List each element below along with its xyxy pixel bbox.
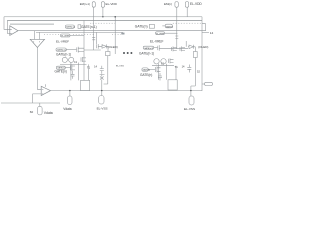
capacitor Cst right [158, 73, 162, 81]
wire dashed rail [44, 33, 121, 35]
terminal pill GATE right G3 [142, 68, 148, 71]
junction dot H1/pill2 [102, 16, 103, 17]
cluster anode left [100, 75, 105, 80]
terminal tag right edge [205, 82, 213, 85]
svg-text:GATE(n): GATE(n) [166, 26, 174, 29]
transistor T8 right [156, 67, 161, 73]
junction dot V1 top [114, 16, 116, 18]
terminal pill GATE right upper [143, 46, 154, 49]
wire mid verticals right [159, 64, 177, 80]
svg-text:GATE(n-1): GATE(n-1) [57, 49, 66, 52]
svg-text:Vdata: Vdata [63, 107, 72, 111]
transistor T7L [81, 57, 86, 62]
wire Vdata output line L5 [51, 90, 203, 92]
svg-text:EM(n): EM(n) [164, 2, 172, 6]
svg-text:GATE(n-1): GATE(n-1) [56, 52, 71, 56]
svg-text:GATE(n): GATE(n) [55, 70, 67, 74]
terminal pill EL-VSS right D [189, 96, 194, 105]
op-amp U1 (left buffer) [10, 26, 18, 36]
rect block right bottom [168, 80, 177, 90]
op-amp U2 (down buffer) [30, 39, 44, 47]
blob H4 end [121, 33, 124, 35]
transistor T7 right [169, 58, 174, 63]
ellipsis dots (more pixels) [123, 52, 125, 54]
wire G3 lead [148, 69, 155, 71]
node circle right B [161, 59, 166, 64]
svg-text:14: 14 [210, 31, 214, 35]
node circle right A [154, 59, 159, 64]
wire Vdata B stem [69, 91, 71, 96]
op-amp U2 input marks [34, 41, 40, 42]
capacitor CstL [71, 71, 75, 79]
wire EM mark left [92, 37, 95, 40]
node circle left A [62, 57, 67, 62]
svg-text:GATE(n): GATE(n) [140, 73, 152, 77]
wire EL-VDD left stem [102, 7, 104, 16]
wire left pixel rail [84, 49, 101, 51]
wire EM mark right [175, 36, 178, 39]
wire GATE right upper lead [154, 47, 158, 49]
svg-text:GATE(n): GATE(n) [135, 25, 148, 29]
wire G2 lead [65, 67, 70, 69]
terminal pill Vdata B [68, 96, 73, 105]
svg-text:T1: T1 [175, 65, 179, 69]
terminal pill EL-VDD left [101, 2, 104, 8]
terminal pill GATE(n) bus tag right [165, 24, 172, 28]
wire amp2 input stub 2 [38, 32, 40, 39]
svg-text:Vdata: Vdata [44, 111, 53, 115]
wire OLED cathode left [101, 80, 103, 96]
transistor T2 (left pixel switch) [77, 47, 84, 53]
wire left feed down from H1 [4, 17, 11, 30]
transistor T8L [70, 65, 75, 71]
wire OLED stack right [194, 47, 196, 52]
svg-text:52: 52 [197, 70, 200, 74]
svg-text:GATE(n-1): GATE(n-1) [66, 26, 75, 29]
svg-text:14: 14 [94, 65, 97, 69]
junction dot right cathode [190, 90, 191, 91]
wire OLED stack left [107, 46, 109, 51]
wire left pixel mid rail [60, 63, 87, 65]
terminal pill EM(n) [175, 2, 178, 8]
wire faint band [10, 23, 54, 25]
wire right edge spur [202, 32, 209, 34]
transistor T5 right [172, 46, 177, 51]
tick GATE(n) tag lead [162, 25, 165, 27]
svg-text:GATE(n): GATE(n) [143, 68, 151, 71]
wire EM(n) stem down into pixel [176, 7, 178, 48]
wire right pixel gate rail [159, 48, 188, 50]
junction dot Vdata B [69, 90, 70, 91]
svg-text:EL-VREF: EL-VREF [61, 36, 70, 38]
wire EL-VREF right lead [165, 32, 178, 34]
terminal pill Vdata A [38, 106, 43, 115]
wire U3 lower input feedback [33, 94, 42, 103]
wire amp2 input stub 1 [34, 31, 36, 40]
rect OLED stack right [193, 52, 197, 58]
wire EL-VSS right stem [190, 91, 192, 96]
svg-text:(OLED): (OLED) [198, 45, 208, 49]
diode OLED left [102, 44, 108, 48]
rect OLED stack left [106, 52, 110, 56]
wire right edge jog H2-H3 [202, 24, 206, 31]
svg-text:60: 60 [30, 110, 34, 114]
wire bus H1 (EL-VDD top rail) [4, 16, 202, 18]
node circle left B [69, 57, 74, 62]
junction dot OLED cathode [101, 90, 102, 91]
svg-text:T1: T1 [87, 65, 91, 69]
op-amp U3 (output buffer) [41, 86, 50, 95]
svg-text:EM(n-1): EM(n-1) [80, 2, 90, 6]
svg-text:EL-VREF: EL-VREF [156, 33, 165, 35]
wire gate drop T4 [96, 32, 98, 44]
wire left mid verticals [71, 63, 88, 81]
wire V_EM_L left pixel vertical [83, 21, 85, 81]
svg-text:(OLED): (OLED) [108, 45, 118, 49]
wire VR corner tag [202, 83, 205, 85]
marker box GATE(n-1) label bracket [78, 25, 81, 29]
wire T6 drop [185, 41, 187, 47]
wire EL-VREF left lead [70, 35, 84, 37]
wire bus H3 (GATE(n-1) rail / amp1 output) [18, 30, 206, 32]
terminal pill EL-VSS C [99, 96, 104, 105]
terminal tag EL-VREF left [61, 34, 71, 37]
svg-text:EL-VREF: EL-VREF [150, 40, 164, 44]
wire EM(n-1) drop [93, 21, 95, 51]
transistor T4 (emission left) [97, 44, 102, 49]
wire V_R right edge drop [201, 17, 203, 91]
terminal pill EL-VDD right [185, 2, 188, 8]
wire G1 lead [66, 49, 76, 51]
terminal pill EM(n-1) [92, 2, 95, 8]
svg-text:EL-VREF: EL-VREF [56, 39, 69, 43]
transistor T2R [158, 45, 159, 51]
terminal pill GATE(n-1) bus tag [65, 25, 74, 28]
diode OLED right [188, 45, 195, 49]
wire right pixel mid rail [152, 65, 174, 67]
wire left feed down from H2 [7, 21, 11, 34]
wire EL-VDD right stem [186, 7, 188, 16]
wire bus H4 (GATE(n) rail) [36, 31, 123, 33]
svg-text:GATE(n-1): GATE(n-1) [139, 52, 154, 56]
svg-text:GATE(n-1): GATE(n-1) [81, 25, 97, 29]
capacitor C2 right [187, 65, 191, 73]
wire bottom bus B3 [1, 102, 60, 104]
terminal tag EL-VREF right [156, 32, 165, 35]
svg-text:GATE(n-1): GATE(n-1) [144, 47, 153, 50]
wire EM(n-1) stem [93, 7, 95, 20]
wire U3 top pin [45, 84, 47, 87]
rect block left bottom [81, 80, 90, 90]
op-amp U1 input marks [10, 29, 12, 33]
wire V1 EL-VDD drop left pixel [114, 17, 116, 54]
svg-text:EL-VSS: EL-VSS [184, 107, 195, 111]
capacitor C2L [100, 66, 104, 74]
svg-text:C1: C1 [74, 61, 78, 64]
wire stack down right [191, 58, 195, 91]
marker box GATE(n) label box [149, 25, 154, 29]
terminal pill GATE left G1 [56, 48, 66, 51]
op-amp U3 input marks [42, 89, 44, 94]
wire stem Vdata pill A [39, 103, 41, 106]
wire bus H2 (EM rail) [7, 20, 202, 22]
svg-text:EL-VSS: EL-VSS [97, 106, 108, 110]
svg-text:EL-VDD: EL-VDD [106, 2, 118, 6]
svg-text:EL-VDD: EL-VDD [190, 2, 202, 6]
transistor T6 right [180, 46, 185, 51]
svg-text:EL-VSS: EL-VSS [116, 65, 124, 67]
wire U2 output down [37, 48, 41, 90]
wire stack down left [104, 56, 108, 84]
wire dashed top [90, 22, 202, 24]
svg-text:14: 14 [182, 65, 185, 69]
terminal pill GATE left G2 [56, 66, 65, 69]
